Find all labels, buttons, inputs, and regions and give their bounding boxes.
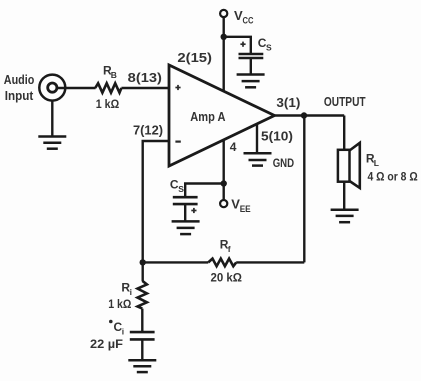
svg-text:B: B <box>111 70 117 80</box>
svg-text:4: 4 <box>230 140 237 154</box>
wire Ri to Ci <box>141 309 143 333</box>
junction VCC node <box>221 34 227 40</box>
svg-text:CC: CC <box>243 16 254 26</box>
label RL <box>366 151 379 168</box>
polarity + (CS top) <box>240 42 245 47</box>
wire connector to ground <box>51 101 53 137</box>
label CS (bottom) <box>170 178 184 195</box>
ground (CS bottom) <box>172 221 200 234</box>
svg-text:8(13): 8(13) <box>128 71 162 85</box>
wire feedback vertical <box>303 116 305 263</box>
svg-text:5(10): 5(10) <box>261 130 293 144</box>
wire CS to ground <box>250 58 252 75</box>
wire input to RB <box>57 87 96 89</box>
resistor RB <box>95 83 121 92</box>
svg-text:EE: EE <box>240 204 251 214</box>
label Audio Input <box>4 72 35 103</box>
svg-text:1 kΩ: 1 kΩ <box>96 97 120 111</box>
svg-text:22 µF: 22 µF <box>90 337 123 351</box>
svg-text:S: S <box>266 43 272 53</box>
ground (Ci) <box>128 360 156 372</box>
speaker RL <box>338 143 360 188</box>
svg-text:1 kΩ: 1 kΩ <box>108 297 132 311</box>
svg-text:4 Ω or 8 Ω: 4 Ω or 8 Ω <box>368 169 419 183</box>
wire op-amp pin 4 to VEE node <box>222 140 224 184</box>
wire CS bottom to ground <box>184 204 186 222</box>
wire node to Ri <box>141 262 143 281</box>
capacitor CS (bottom) <box>173 197 198 204</box>
svg-text:Audio: Audio <box>4 72 35 87</box>
connector J1 Audio Input <box>39 75 65 101</box>
svg-text:20 kΩ: 20 kΩ <box>211 270 243 284</box>
svg-text:Input: Input <box>5 88 34 103</box>
junction VEE node <box>221 180 227 186</box>
junction output node <box>301 112 307 118</box>
ground (speaker) <box>331 210 359 222</box>
svg-text:OUTPUT: OUTPUT <box>324 94 366 109</box>
svg-text:3(1): 3(1) <box>276 96 300 110</box>
resistor Ri <box>138 281 147 309</box>
junction inverting node <box>140 259 146 265</box>
wire op-amp pin 5 to ground <box>256 124 258 154</box>
capacitor CS (top) <box>239 54 264 58</box>
wire op-amp - input <box>143 141 168 262</box>
op-amp U1 Amp A <box>169 65 275 166</box>
label Rf <box>220 238 231 255</box>
power VEE terminal <box>220 184 251 215</box>
label CS (top) <box>258 36 272 53</box>
ground GND (pin 5) <box>244 153 272 165</box>
svg-text:7(12): 7(12) <box>133 124 163 138</box>
power VCC terminal <box>220 8 254 26</box>
ground (input) <box>38 137 66 149</box>
capacitor Ci <box>130 332 155 339</box>
wire VCC node to CS <box>224 37 251 54</box>
svg-text:i: i <box>130 287 132 297</box>
svg-text:f: f <box>228 244 231 254</box>
svg-text:Amp A: Amp A <box>190 109 226 124</box>
label RB <box>103 63 117 80</box>
wire VCC to op-amp pin 2 <box>222 17 224 91</box>
svg-text:2(15): 2(15) <box>177 51 212 65</box>
wire output to speaker <box>343 116 345 151</box>
wire Rf to inverting node <box>143 261 209 263</box>
wire speaker to ground <box>343 182 345 211</box>
svg-text:GND: GND <box>273 156 295 170</box>
svg-text:i: i <box>122 327 124 337</box>
wire RB to op-amp + input <box>121 87 168 89</box>
wire Ci to ground <box>141 339 143 360</box>
label Ri <box>121 280 132 297</box>
svg-text:S: S <box>178 184 184 194</box>
wire output <box>275 114 345 116</box>
ground (CS top) <box>237 75 265 88</box>
polarity + (CS bottom) <box>191 208 196 213</box>
wire VEE node to CS bottom <box>185 184 224 198</box>
svg-text:L: L <box>374 158 379 168</box>
resistor Rf <box>208 259 236 267</box>
wire feedback to Rf <box>236 261 304 263</box>
label Ci <box>109 320 124 337</box>
